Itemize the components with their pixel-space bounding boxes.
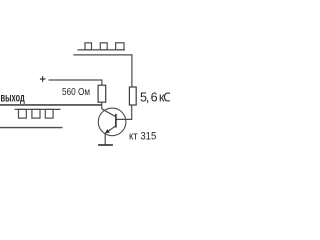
svg-text:выход: выход — [1, 91, 25, 105]
svg-text:кт 315: кт 315 — [129, 130, 156, 142]
svg-text:5, 6 кОм: 5, 6 кОм — [140, 91, 170, 105]
svg-text:560 Ом: 560 Ом — [62, 86, 90, 98]
